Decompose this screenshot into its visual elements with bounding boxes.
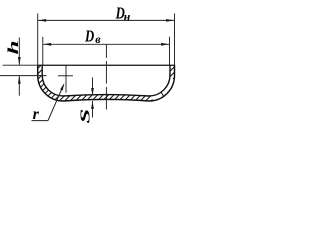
Dн arrow left <box>38 19 46 22</box>
Dн dimension line <box>38 19 174 21</box>
S upper arrow (down) <box>92 78 94 96</box>
h upper extension line (rim extended left) <box>3 64 38 66</box>
right knuckle hatch tick <box>161 92 164 96</box>
head inner contour <box>42 65 170 96</box>
knuckle radius center mark vertical <box>65 65 67 92</box>
h lower extension line (tangent line) <box>0 75 47 77</box>
knuckle radius center mark horizontal <box>58 75 73 77</box>
Dв dimension line <box>43 43 169 45</box>
Dв arrow right <box>161 43 169 46</box>
centerline (axis), dash-dot <box>105 44 107 109</box>
svg-text:в: в <box>95 32 101 46</box>
Dн arrow right <box>166 19 174 22</box>
Dн extension line left <box>37 14 39 66</box>
S lower arrow (up) <box>92 101 94 118</box>
r label underline shelf <box>32 120 49 122</box>
Dв extension line left <box>42 37 44 65</box>
svg-text:D: D <box>84 28 94 46</box>
Dв arrow left <box>43 43 51 46</box>
svg-text:h: h <box>6 40 21 54</box>
Dн extension line right <box>174 14 176 66</box>
svg-text:S: S <box>77 109 93 124</box>
svg-text:н: н <box>124 10 131 24</box>
head outer contour <box>38 65 175 101</box>
h dimension line upper segment with down arrow <box>18 38 20 65</box>
svg-text:r: r <box>33 106 40 123</box>
Dв extension line right <box>169 37 171 65</box>
r leader line <box>48 85 64 121</box>
h dimension line lower segment with up arrow <box>18 76 20 96</box>
r leader arrowhead <box>60 83 64 90</box>
rim (top edge of head) <box>37 64 175 66</box>
